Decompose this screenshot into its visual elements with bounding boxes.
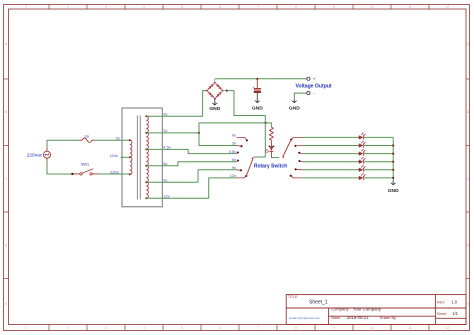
resistor R1 [270,127,274,140]
junction dot crossing at resistor feed [264,122,266,124]
svg-text:Company:: Company: [331,307,349,312]
svg-text:1: 1 [25,326,27,330]
svg-text:6v: 6v [163,161,167,166]
svg-text:GND: GND [209,106,220,112]
svg-text:E: E [5,302,7,306]
svg-text:4.5v: 4.5v [229,149,237,154]
junction dot tap 3v [198,132,200,134]
ground under LED bus [392,181,394,183]
bridge rectifier B1 [207,83,215,91]
svg-text:6: 6 [219,326,221,330]
wire bridge AC2 to rotary pole A [227,91,265,157]
secondary tap dots [145,115,147,117]
voltage source V1 220vac [44,151,51,158]
wire deck B contact 1 to LED D1 [303,136,359,138]
svg-text:9v: 9v [232,165,236,170]
svg-text:12: 12 [446,326,450,330]
wire tap 9v to contact [146,170,236,182]
ground under bridge [214,102,216,103]
svg-text:8: 8 [295,326,297,330]
fuse F1 3a [79,139,82,141]
wire deck B contact 5 to LED D5 [303,169,359,171]
rotary switch deck B contacts and pole [291,137,302,139]
junction dot bridge AC2 pin [226,90,228,92]
svg-text:2019-08-21: 2019-08-21 [347,315,370,320]
svg-text:7: 7 [257,5,259,9]
svg-text:9: 9 [333,5,335,9]
primary tap dots [129,139,131,141]
svg-text:2: 2 [67,5,69,9]
wire DC+ rail to output [215,78,307,80]
svg-text:REV:: REV: [437,300,445,304]
svg-text:12: 12 [446,5,450,9]
svg-text:4: 4 [143,326,145,330]
svg-text:GND: GND [388,188,399,194]
svg-text:B: B [467,110,469,114]
terminal - voltage output [307,92,310,95]
svg-text:Date:: Date: [331,315,341,320]
junction dot ground bus row 6 [392,177,394,179]
ground bus wire [392,137,394,181]
LED D4 [359,160,363,164]
wire LED D2 cathode to ground bus [364,145,394,147]
svg-text:1/1: 1/1 [452,311,458,316]
wire deck B contact 2 to LED D2 [303,145,359,147]
svg-text:Sheet_1: Sheet_1 [309,300,328,306]
svg-text:8: 8 [295,5,297,9]
svg-text:Drawn By:: Drawn By: [380,316,397,320]
junction dot ground bus row 2 [392,144,394,146]
wire LED to rotary pole B [271,157,279,159]
wire from source top to fuse [47,140,79,147]
svg-text:lceda.cn/project/psu-sel: lceda.cn/project/psu-sel [289,316,320,320]
LED D6 [359,176,363,180]
svg-text:11: 11 [408,5,412,9]
svg-text:3: 3 [105,326,107,330]
svg-text:Voltage Output: Voltage Output [296,83,332,89]
svg-text:GND: GND [252,106,263,112]
svg-text:110v: 110v [110,153,118,158]
transformer T1 [122,108,162,207]
svg-text:0v: 0v [163,111,167,116]
svg-text:9v: 9v [163,177,167,182]
junction dot ground bus row 4 [392,161,394,163]
wire - terminal to ground [294,93,307,100]
svg-text:220vac: 220vac [27,152,43,158]
svg-text:4.5v: 4.5v [163,145,171,150]
junction dot capacitor tap [256,78,258,80]
wire LED D5 cathode to ground bus [364,169,394,171]
wire LED D4 cathode to ground bus [364,161,394,163]
ground under - terminal [293,100,295,101]
svg-text:1: 1 [25,5,27,9]
LED D7 indicator feed [270,140,272,146]
junction dot ground bus row 5 [392,169,394,171]
wire tap 4.5v to contact [146,149,236,153]
wire deck B contact 4 to LED D4 [303,161,359,163]
svg-text:5: 5 [181,5,183,9]
svg-text:SW1: SW1 [81,162,89,166]
svg-text:12v: 12v [230,173,236,178]
wire LED D1 cathode to ground bus [364,136,394,138]
svg-text:12v: 12v [163,193,169,198]
LED D5 [359,168,363,172]
svg-text:2: 2 [67,326,69,330]
LED D1 [359,135,363,139]
wire LED D3 cathode to ground bus [364,153,394,155]
svg-text:220v: 220v [110,169,119,174]
svg-text:3: 3 [105,5,107,9]
svg-text:0v: 0v [232,133,236,138]
svg-text:TITLE:: TITLE: [288,295,298,299]
svg-text:10: 10 [370,326,374,330]
svg-text:5: 5 [181,326,183,330]
svg-text:3v: 3v [232,141,236,146]
svg-text:6v: 6v [232,157,236,162]
rotary switch deck A contacts and pole [236,137,247,140]
wire fuse to transformer 0v [94,139,129,141]
svg-text:Rotary Switch: Rotary Switch [254,163,287,169]
svg-text:Sheet:: Sheet: [437,312,447,316]
svg-text:+: + [313,77,316,82]
wire source bottom to switch [47,162,72,174]
svg-text:Your Company: Your Company [353,307,382,312]
junction dot ground bus row 3 [392,153,394,155]
stub wire 110v tap [121,156,130,158]
LED D3 [359,151,363,155]
svg-text:6: 6 [219,5,221,9]
svg-text:GND: GND [289,106,300,112]
svg-text:11: 11 [408,326,412,330]
svg-text:E: E [467,302,469,306]
svg-text:9: 9 [333,326,335,330]
wire switch to transformer 220v [98,173,130,175]
wire tap 3v [146,132,199,134]
ground under capacitor [256,100,258,101]
svg-text:10: 10 [370,5,374,9]
svg-text:3v: 3v [163,128,167,133]
wire deck B contact 3 to LED D3 [303,153,359,155]
wire tap 6v to contact [146,162,236,166]
switch SW1 [71,173,73,175]
svg-text:B: B [5,110,7,114]
wire tap 0v to bridge AC1 [146,91,207,117]
wire LED D6 cathode to ground bus [364,177,394,179]
capacitor C1 [256,79,258,88]
wire 3v branch to contact and resistor feed [199,123,271,146]
terminal + voltage output [307,77,310,80]
LED D2 [359,143,363,147]
wire deck B contact 6 to LED D6 [303,177,359,179]
svg-text:4: 4 [143,5,145,9]
svg-text:7: 7 [257,326,259,330]
wire tap 12v to contact [146,178,236,198]
svg-text:1.0: 1.0 [451,300,457,305]
svg-text:0v: 0v [116,135,120,140]
